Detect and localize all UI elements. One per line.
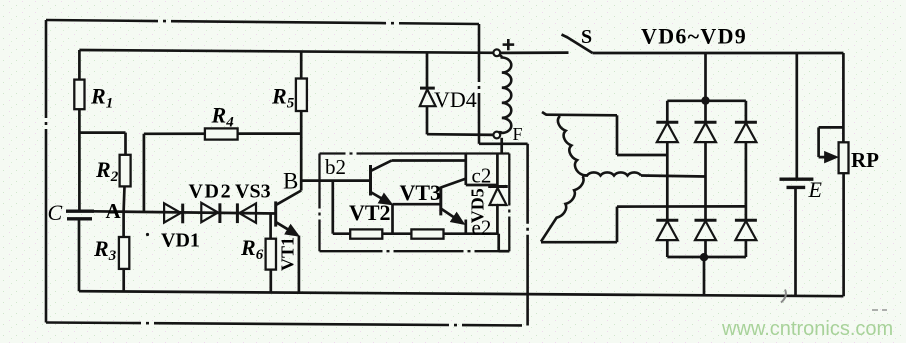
svg-text:VT3: VT3: [400, 180, 442, 205]
svg-text:VD2: VD2: [189, 181, 233, 203]
svg-text:E: E: [808, 177, 823, 202]
svg-text:VD1: VD1: [161, 230, 200, 252]
svg-text:VD4: VD4: [434, 87, 477, 112]
svg-text:VT1: VT1: [278, 237, 298, 271]
svg-text:F: F: [513, 124, 523, 144]
svg-text:c2: c2: [472, 164, 492, 188]
svg-text:C: C: [48, 200, 63, 225]
svg-text:e2: e2: [472, 216, 492, 240]
svg-text:VT2: VT2: [349, 200, 391, 225]
svg-text:RP: RP: [851, 148, 879, 172]
svg-text:A: A: [106, 199, 122, 223]
svg-text:B: B: [283, 169, 298, 194]
svg-text:VS3: VS3: [235, 181, 271, 203]
svg-text:VD6~VD9: VD6~VD9: [641, 24, 747, 49]
svg-text:www.cntronics.com: www.cntronics.com: [721, 318, 893, 340]
svg-text:b2: b2: [325, 155, 346, 179]
svg-text:S: S: [581, 26, 592, 48]
